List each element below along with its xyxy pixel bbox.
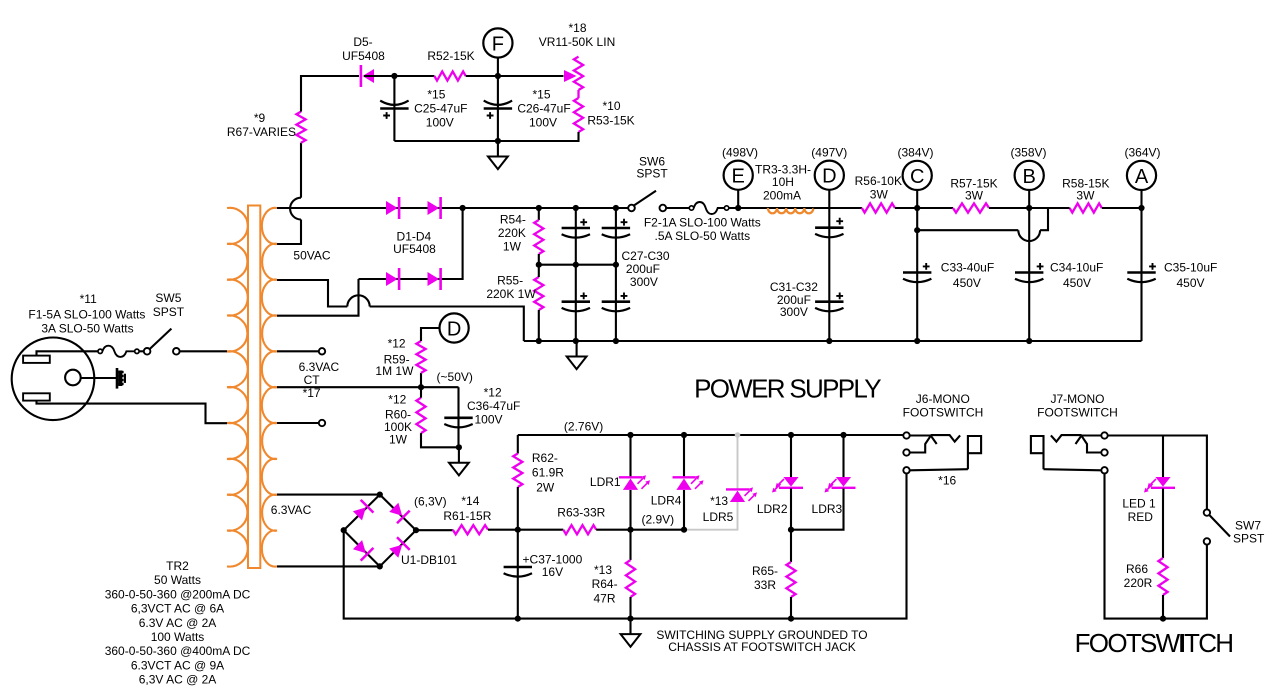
diode D1 bbox=[386, 201, 398, 215]
AC plug face bbox=[12, 338, 95, 421]
capacitor C31 bbox=[828, 208, 830, 341]
svg-text:(497V): (497V) bbox=[811, 146, 847, 160]
svg-text:C34-10uF: C34-10uF bbox=[1050, 261, 1103, 275]
junction dot bbox=[391, 73, 397, 79]
svg-text:*10: *10 bbox=[602, 99, 620, 113]
junction dot bbox=[914, 227, 920, 233]
svg-text:CT: CT bbox=[304, 373, 321, 387]
svg-text:LDR4: LDR4 bbox=[651, 493, 682, 507]
wire R58 to node A bbox=[1048, 207, 1070, 209]
diode D5 bbox=[363, 69, 375, 83]
transformer TR2 secondary winding bbox=[262, 208, 277, 567]
resistor R56 bbox=[862, 203, 895, 212]
junction dot bbox=[418, 384, 424, 390]
LDR4 led bbox=[683, 435, 685, 477]
resistor R52 bbox=[434, 71, 465, 80]
svg-text:220K: 220K bbox=[498, 226, 526, 240]
junction dots bbox=[788, 432, 794, 438]
svg-text:61.9R: 61.9R bbox=[532, 466, 564, 480]
svg-text:6.3VAC: 6.3VAC bbox=[271, 503, 312, 517]
svg-text:220K 1W: 220K 1W bbox=[486, 287, 536, 301]
svg-text:6,3VCT AC @ 6A: 6,3VCT AC @ 6A bbox=[131, 602, 224, 616]
wire J7 tip to SW7 bbox=[1108, 436, 1207, 510]
wire R53 to bias ground rail bbox=[394, 132, 578, 141]
wire hop bypass under node B column bbox=[1018, 230, 1040, 241]
svg-text:CHASSIS AT FOOTSWITCH JACK: CHASSIS AT FOOTSWITCH JACK bbox=[668, 640, 856, 654]
wire VR11 to R53 bbox=[577, 90, 579, 98]
svg-text:R62-: R62- bbox=[532, 451, 558, 465]
junction dot bbox=[536, 262, 542, 268]
junction dot bbox=[515, 527, 521, 533]
tap 6.3VAC upper open circle bbox=[277, 350, 319, 352]
svg-text:E: E bbox=[732, 166, 745, 188]
switch SW7 bbox=[1204, 509, 1210, 515]
svg-text:RED: RED bbox=[1128, 510, 1154, 524]
capacitor C33 bbox=[916, 208, 918, 341]
diode D4 bbox=[428, 272, 440, 286]
svg-text:SW7: SW7 bbox=[1235, 519, 1261, 533]
svg-text:3W: 3W bbox=[1076, 188, 1095, 202]
svg-text:C26-47uF: C26-47uF bbox=[517, 102, 570, 116]
wire HV CT tap to ground rail bbox=[277, 280, 347, 307]
svg-text:*12: *12 bbox=[388, 393, 406, 407]
svg-text:360-0-50-360 @200mA DC: 360-0-50-360 @200mA DC bbox=[105, 587, 251, 601]
resistor R59 bbox=[420, 373, 422, 387]
capacitor C34 bbox=[1028, 208, 1030, 341]
capacitor C25 bbox=[393, 76, 395, 141]
svg-text:LDR1: LDR1 bbox=[590, 475, 621, 489]
wire SW5 to primary bbox=[180, 350, 227, 352]
resistor R67 bbox=[300, 143, 302, 198]
capacitor C37 bbox=[517, 530, 519, 619]
svg-text:*12: *12 bbox=[484, 385, 502, 399]
wire F2 to choke bbox=[729, 207, 768, 209]
LED1 red bbox=[1162, 436, 1164, 478]
transformer TR2 primary winding bbox=[227, 208, 248, 567]
svg-text:C25-47uF: C25-47uF bbox=[414, 102, 467, 116]
resistor R60 bbox=[416, 398, 425, 433]
potentiometer VR11 wiper arrow bbox=[564, 70, 577, 82]
resistor R66 bbox=[1158, 558, 1167, 595]
svg-text:100V: 100V bbox=[529, 115, 557, 129]
svg-text:(364V): (364V) bbox=[1124, 146, 1160, 160]
svg-text:200uF: 200uF bbox=[626, 262, 660, 276]
svg-text:J6-MONO: J6-MONO bbox=[916, 392, 970, 406]
svg-text:(2.9V): (2.9V) bbox=[641, 513, 674, 527]
svg-text:R54-: R54- bbox=[500, 212, 526, 226]
svg-text:*15: *15 bbox=[532, 88, 550, 102]
svg-text:R66: R66 bbox=[1126, 562, 1148, 576]
svg-text:A: A bbox=[1135, 166, 1149, 188]
svg-text:200mA: 200mA bbox=[763, 189, 801, 203]
ground bias supply bbox=[497, 141, 499, 157]
svg-text:LDR2: LDR2 bbox=[757, 502, 788, 516]
LDR3 led bbox=[842, 435, 844, 477]
junction dot bbox=[536, 205, 542, 211]
junction dot bbox=[627, 616, 633, 622]
wire C-to-R58 bypass bbox=[917, 229, 1018, 231]
svg-text:J7-MONO: J7-MONO bbox=[1051, 392, 1105, 406]
svg-text:FOOTSWITCH: FOOTSWITCH bbox=[903, 406, 984, 420]
svg-text:.5A SLO-50 Watts: .5A SLO-50 Watts bbox=[654, 229, 750, 243]
resistor R62 bbox=[517, 435, 519, 454]
svg-text:10H: 10H bbox=[772, 175, 794, 189]
svg-text:*14: *14 bbox=[461, 494, 479, 508]
wire HV ground rail bbox=[524, 340, 1142, 342]
junction dot bbox=[1026, 205, 1032, 211]
svg-text:SPST: SPST bbox=[153, 305, 185, 319]
svg-text:3A SLO-50 Watts: 3A SLO-50 Watts bbox=[41, 321, 133, 335]
wire bridge negative to chassis rail bbox=[344, 473, 907, 618]
diode D3 bbox=[386, 272, 398, 286]
svg-text:D: D bbox=[447, 319, 461, 341]
svg-text:*11: *11 bbox=[80, 292, 97, 306]
potentiometer VR11 element bbox=[574, 57, 583, 90]
junction dot bbox=[1160, 616, 1166, 622]
svg-text:220R: 220R bbox=[1124, 576, 1153, 590]
wire R57 to node B bbox=[989, 207, 1048, 209]
resistor R61 bbox=[416, 529, 453, 531]
svg-text:47R: 47R bbox=[593, 592, 615, 606]
wire plug ground pin to chassis bbox=[81, 377, 117, 379]
LDR2 led bbox=[790, 435, 792, 477]
resistor R55 bbox=[534, 277, 543, 310]
resistor R57 bbox=[953, 203, 989, 212]
junction dot bbox=[495, 73, 501, 79]
capacitor C36 bbox=[457, 387, 459, 447]
svg-text:F2-1A SLO-100 Watts: F2-1A SLO-100 Watts bbox=[644, 216, 761, 230]
svg-text:C: C bbox=[910, 166, 924, 188]
junction dot bbox=[826, 338, 832, 344]
wire lower diode row bbox=[359, 208, 463, 279]
svg-text:1W: 1W bbox=[503, 239, 522, 253]
svg-text:UF5408: UF5408 bbox=[342, 49, 385, 63]
svg-text:TR2: TR2 bbox=[166, 559, 189, 573]
node E bbox=[737, 190, 739, 208]
svg-text:300V: 300V bbox=[780, 305, 808, 319]
chassis ground symbol bbox=[116, 368, 119, 389]
svg-text:SPST: SPST bbox=[636, 167, 668, 181]
svg-text:6.3VCT AC @ 9A: 6.3VCT AC @ 9A bbox=[131, 658, 224, 672]
svg-text:100K: 100K bbox=[384, 420, 412, 434]
wire to R52 bbox=[394, 75, 434, 77]
svg-text:(6,3V): (6,3V) bbox=[414, 495, 447, 509]
svg-text:C35-10uF: C35-10uF bbox=[1164, 261, 1217, 275]
svg-text:33R: 33R bbox=[754, 578, 776, 592]
svg-text:D5-: D5- bbox=[353, 35, 372, 49]
choke TR3 bbox=[768, 207, 814, 209]
resistor R63 bbox=[518, 529, 564, 531]
node B bbox=[1028, 190, 1030, 208]
svg-text:(358V): (358V) bbox=[1010, 146, 1046, 160]
svg-text:100 Watts: 100 Watts bbox=[151, 630, 205, 644]
svg-text:R61-15R: R61-15R bbox=[443, 509, 491, 523]
wire plug hot blade to fuse F1 bbox=[37, 351, 99, 355]
capacitor C29-C30 upper bbox=[615, 208, 617, 265]
wire choke to R56 bbox=[813, 207, 862, 209]
svg-text:R56-10K: R56-10K bbox=[855, 174, 902, 188]
resistor R54 bbox=[538, 208, 540, 220]
svg-text:6.3VAC: 6.3VAC bbox=[299, 360, 340, 374]
svg-text:F: F bbox=[492, 34, 504, 56]
switch SW6 bbox=[628, 205, 635, 212]
junction dot bbox=[788, 616, 794, 622]
wire HV lower end tap riser bbox=[277, 279, 359, 316]
junction dots bbox=[914, 338, 920, 344]
svg-text:50 Watts: 50 Watts bbox=[154, 573, 201, 587]
capacitor C29-C30 lower bbox=[615, 265, 617, 341]
node C bbox=[916, 190, 918, 208]
svg-text:U1-DB101: U1-DB101 bbox=[401, 553, 457, 567]
svg-text:R53-15K: R53-15K bbox=[587, 114, 634, 128]
junction dot bbox=[1138, 205, 1144, 211]
capacitor C26 bbox=[497, 76, 499, 141]
resistor R65 bbox=[790, 530, 792, 562]
wire LED supply rail 2.76V bbox=[518, 434, 904, 436]
svg-text:UF5408: UF5408 bbox=[393, 242, 436, 256]
wire D5 to C25 bbox=[364, 75, 394, 77]
svg-text:6.3V AC @ 2A: 6.3V AC @ 2A bbox=[139, 616, 217, 630]
LDR1 led bbox=[629, 435, 631, 477]
svg-text:(2.76V): (2.76V) bbox=[564, 419, 603, 433]
capacitor C32 bbox=[815, 300, 843, 303]
svg-text:100V: 100V bbox=[426, 115, 454, 129]
wire LDR1 to LDR4 bottom bbox=[631, 529, 685, 531]
svg-text:50VAC: 50VAC bbox=[293, 249, 330, 263]
wire J7 sleeve riser bbox=[1105, 474, 1207, 619]
svg-text:D: D bbox=[822, 166, 836, 188]
wire CT tap to divider bbox=[277, 386, 459, 388]
resistor R58 bbox=[1070, 203, 1102, 212]
ground bias divider bbox=[458, 447, 460, 463]
resistor R64 bbox=[629, 530, 631, 560]
junction dot bbox=[914, 205, 920, 211]
svg-text:1W: 1W bbox=[389, 433, 408, 447]
wire R56 to node C bbox=[895, 207, 953, 209]
ground switching supply bbox=[629, 619, 631, 635]
transformer TR2 core bbox=[248, 206, 260, 569]
svg-text:LDR5: LDR5 bbox=[703, 510, 734, 524]
wire hop R67 over HV rail bbox=[290, 198, 301, 220]
svg-text:3W: 3W bbox=[870, 188, 889, 202]
resistor R53 bbox=[574, 98, 583, 132]
svg-text:SPST: SPST bbox=[1233, 532, 1265, 546]
svg-text:LED 1: LED 1 bbox=[1122, 497, 1156, 511]
svg-text:*13: *13 bbox=[594, 563, 612, 577]
svg-text:B: B bbox=[1023, 166, 1036, 188]
junction dot bbox=[735, 205, 741, 211]
wire 50VAC tap to R67 bbox=[277, 220, 301, 245]
svg-text:C31-C32: C31-C32 bbox=[770, 280, 818, 294]
svg-text:R65-: R65- bbox=[752, 564, 778, 578]
capacitor C35 bbox=[1140, 208, 1142, 341]
svg-text:3W: 3W bbox=[965, 188, 984, 202]
svg-text:16V: 16V bbox=[542, 565, 563, 579]
svg-text:TR3-3.3H-: TR3-3.3H- bbox=[755, 162, 811, 176]
junction dot bbox=[515, 616, 521, 622]
wire plug neutral blade to primary bbox=[37, 401, 228, 424]
svg-text:360-0-50-360 @400mA DC: 360-0-50-360 @400mA DC bbox=[105, 644, 251, 658]
capacitor C27-C28 upper bbox=[575, 208, 577, 265]
node D bbox=[828, 190, 830, 208]
svg-text:R64-: R64- bbox=[592, 577, 618, 591]
svg-text:450V: 450V bbox=[1177, 276, 1205, 290]
fuse F2 bbox=[689, 206, 693, 210]
svg-text:SW5: SW5 bbox=[155, 291, 181, 305]
svg-text:*9: *9 bbox=[254, 111, 266, 125]
node A bbox=[1140, 190, 1142, 208]
svg-text:300V: 300V bbox=[630, 275, 658, 289]
capacitor C27-C28 lower bbox=[575, 265, 577, 341]
wire SW6 to F2 bbox=[666, 207, 689, 209]
wire HV rail bbox=[277, 207, 628, 209]
bridge rectifier U1-DB101 bbox=[344, 495, 416, 567]
LDR5 led optional branch bbox=[737, 435, 739, 489]
svg-text:C33-40uF: C33-40uF bbox=[941, 261, 994, 275]
svg-text:1M 1W: 1M 1W bbox=[375, 364, 414, 378]
junction dot bbox=[456, 444, 462, 450]
diode D2 bbox=[428, 201, 440, 215]
junction dots bbox=[627, 432, 633, 438]
fuse F1 bbox=[98, 349, 102, 353]
wire R52 to node F riser bbox=[466, 75, 498, 77]
svg-text:*18: *18 bbox=[568, 21, 586, 35]
svg-text:(384V): (384V) bbox=[897, 146, 933, 160]
svg-text:F1-5A SLO-100 Watts: F1-5A SLO-100 Watts bbox=[28, 307, 145, 321]
svg-text:(~50V): (~50V) bbox=[437, 370, 473, 384]
tap 6.3VAC lower open circle bbox=[277, 422, 319, 424]
svg-text:C36-47uF: C36-47uF bbox=[467, 399, 520, 413]
svg-text:*12: *12 bbox=[388, 337, 406, 351]
wire 6.3VAC top tap to bridge bbox=[277, 494, 380, 496]
switch SW5 bbox=[139, 350, 144, 352]
wire node F to VR11 wiper bbox=[498, 75, 564, 77]
wire hop CT over lower-end riser bbox=[347, 295, 369, 306]
junction dots bbox=[573, 205, 579, 211]
svg-text:450V: 450V bbox=[953, 276, 981, 290]
svg-text:FOOTSWITCH: FOOTSWITCH bbox=[1037, 406, 1118, 420]
svg-text:VR11-50K LIN: VR11-50K LIN bbox=[539, 35, 615, 49]
svg-text:*15: *15 bbox=[427, 88, 445, 102]
svg-text:100V: 100V bbox=[475, 413, 503, 427]
svg-text:R55-: R55- bbox=[497, 273, 523, 287]
svg-text:2W: 2W bbox=[536, 481, 555, 495]
node D mid bbox=[440, 313, 469, 342]
svg-text:*17: *17 bbox=[303, 386, 321, 400]
svg-text:*16: *16 bbox=[938, 474, 956, 488]
svg-text:LDR3: LDR3 bbox=[812, 502, 843, 516]
svg-text:6,3V AC @ 2A: 6,3V AC @ 2A bbox=[139, 673, 217, 687]
junction dots ground rail bbox=[536, 338, 542, 344]
svg-text:R63-33R: R63-33R bbox=[557, 505, 605, 519]
svg-text:R67-VARIES: R67-VARIES bbox=[227, 125, 296, 139]
wire middle row bbox=[539, 264, 616, 266]
junction dot bbox=[460, 205, 466, 211]
node F bbox=[497, 58, 499, 76]
junction dot bbox=[495, 138, 501, 144]
svg-text:450V: 450V bbox=[1063, 276, 1091, 290]
junction dots bbox=[681, 432, 687, 438]
junction dot bbox=[840, 432, 846, 438]
svg-text:(498V): (498V) bbox=[722, 146, 758, 160]
svg-text:FOOTSWITCH: FOOTSWITCH bbox=[1075, 628, 1233, 658]
wire 6.3VAC bottom tap to bridge bbox=[277, 565, 380, 567]
svg-text:*13: *13 bbox=[710, 494, 728, 508]
svg-text:POWER SUPPLY: POWER SUPPLY bbox=[694, 374, 881, 404]
svg-text:R52-15K: R52-15K bbox=[427, 49, 474, 63]
ground HV rail bbox=[576, 341, 578, 357]
